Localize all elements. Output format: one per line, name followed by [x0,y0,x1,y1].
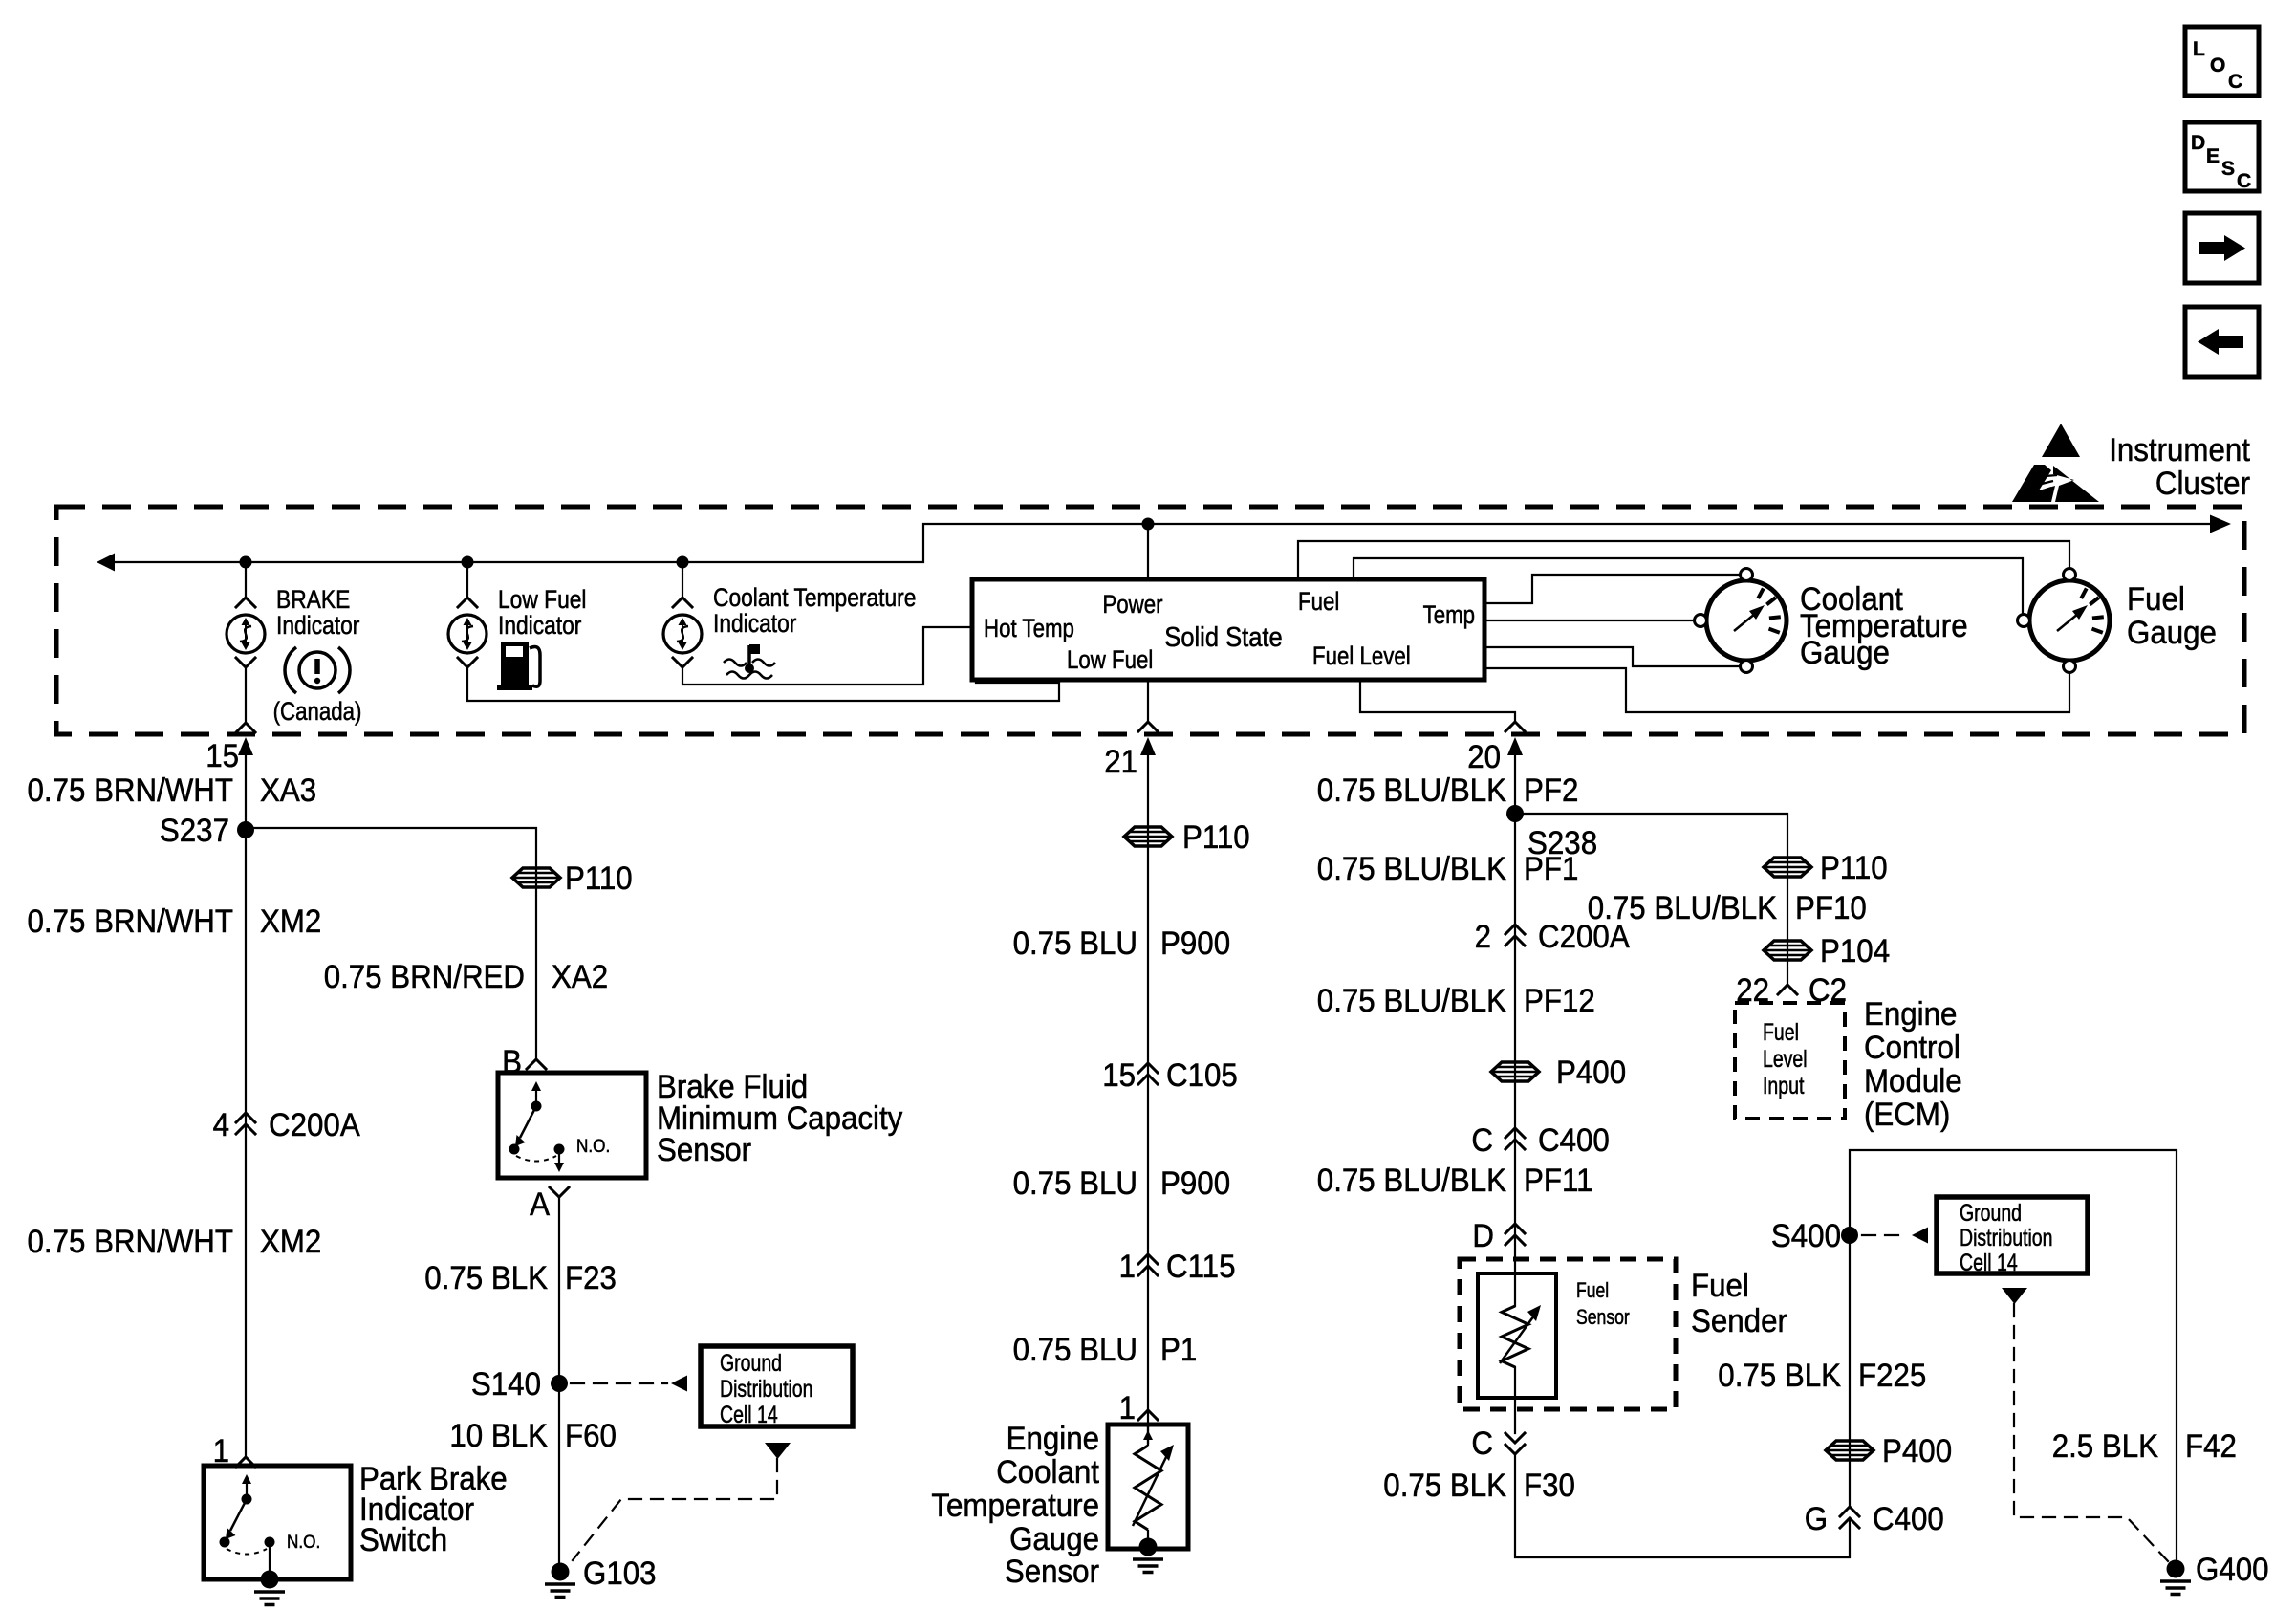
icon: coolant temperature (thermometer in liquid) [724,644,775,679]
pin 20 into cluster [1507,737,1523,755]
box: Fuel Level Input (dashed, part of ECM) [1735,1003,1845,1119]
connector P110 (brake fluid leg) [512,868,560,887]
svg-text:PF12: PF12 [1524,983,1595,1019]
svg-text:XM2: XM2 [260,903,321,940]
svg-text:Fuel Level: Fuel Level [1312,642,1411,670]
ground at ECT sensor case [1133,1538,1163,1573]
lamp: BRAKE Indicator [227,615,265,653]
ESD sensitive symbol [2042,424,2080,457]
svg-text:0.75 BLK: 0.75 BLK [1718,1358,1841,1394]
svg-text:4: 4 [213,1107,229,1143]
connector pin D [1505,1224,1525,1233]
svg-text:(Canada): (Canada) [273,697,362,726]
wire: BRAKE indicator to pin 15 [245,667,247,723]
svg-text:L: L [2193,38,2205,60]
svg-text:A: A [530,1186,550,1223]
svg-text:Coolant: Coolant [996,1454,1099,1490]
svg-text:G400: G400 [2196,1552,2269,1588]
ground at park brake switch case [254,1571,285,1605]
svg-text:Ground: Ground [1960,1200,2022,1227]
connector P104 [1764,941,1811,960]
node: bus tap to Solid State Power [1142,518,1155,531]
svg-text:15: 15 [1102,1057,1136,1094]
svg-text:C: C [1471,1122,1493,1159]
svg-text:Hot Temp: Hot Temp [984,614,1074,642]
svg-text:Sensor: Sensor [1005,1554,1099,1590]
node: bus tap to Low Fuel indicator [462,556,474,569]
svg-text:S237: S237 [160,813,229,849]
splice S400 [1841,1227,1858,1244]
wire: XA3 0.75 BRN/WHT [245,754,247,1457]
svg-text:C400: C400 [1538,1122,1610,1159]
connector P400 (fuel sender leg) [1491,1062,1539,1081]
box: Fuel Sensor [1478,1273,1556,1398]
svg-text:Gauge: Gauge [1009,1521,1099,1557]
wire: Power pin from bus [1147,524,1149,579]
icon: brake warning ((!)) (Canada) [299,652,336,688]
box: Ground Distribution Cell 14 (right) [1937,1197,2088,1273]
svg-text:0.75 BLK: 0.75 BLK [1383,1468,1506,1504]
svg-text:Solid State: Solid State [1164,622,1282,653]
svg-text:Distribution: Distribution [720,1376,813,1403]
svg-text:Instrument: Instrument [2109,432,2250,468]
svg-text:Temp: Temp [1423,600,1475,629]
svg-text:Low Fuel: Low Fuel [1067,645,1153,674]
wire: 0.75 BLK F23 / 10 BLK F60 to G103 [558,1197,560,1564]
svg-text:15: 15 [206,738,239,774]
svg-text:P900: P900 [1160,1165,1230,1202]
wire/contact to case ground [269,1542,271,1571]
svg-text:Fuel: Fuel [1298,587,1339,616]
svg-text:P900: P900 [1160,925,1230,962]
wire: fuel sensor to pin C [1514,1367,1516,1433]
svg-text:S400: S400 [1771,1218,1841,1254]
lamp: Coolant Temperature Indicator [663,615,702,653]
pin C below fuel sender [1505,1445,1525,1454]
svg-text:Indicator: Indicator [713,609,797,638]
svg-text:0.75 BLU/BLK: 0.75 BLU/BLK [1588,890,1777,926]
svg-text:C200A: C200A [269,1107,360,1143]
box: Brake Fluid Minimum Capacity Sensor [498,1073,646,1178]
svg-text:Distribution: Distribution [1960,1225,2053,1251]
svg-text:Coolant Temperature: Coolant Temperature [713,583,916,612]
wire: Solid State pin 21 [1147,680,1149,722]
right-arrow nav box [2185,213,2259,283]
svg-text:Indicator: Indicator [498,611,582,640]
svg-text:Ground: Ground [720,1350,782,1377]
svg-text:O: O [2210,54,2225,76]
svg-text:G103: G103 [583,1556,657,1592]
svg-text:Engine: Engine [1007,1421,1099,1457]
svg-text:XM2: XM2 [260,1224,321,1260]
svg-text:BRAKE: BRAKE [276,585,350,614]
wire: Coolant Temp indicator to Hot Temp pin [682,627,972,685]
left-arrow nav box [2185,307,2259,377]
svg-text:PF10: PF10 [1795,890,1867,926]
svg-text:C115: C115 [1166,1249,1236,1285]
svg-text:C400: C400 [1873,1501,1944,1537]
svg-text:0.75 BLU: 0.75 BLU [1013,1332,1137,1368]
svg-text:P1: P1 [1160,1332,1197,1368]
svg-text:Temperature: Temperature [931,1488,1099,1524]
svg-text:0.75 BRN/WHT: 0.75 BRN/WHT [28,772,234,809]
svg-text:1: 1 [1119,1390,1136,1426]
svg-text:PF1: PF1 [1524,851,1578,887]
svg-text:Cell 14: Cell 14 [720,1402,778,1428]
ground G400 [2160,1560,2191,1595]
svg-text:Engine: Engine [1864,996,1957,1033]
pin A below sensor [550,1187,569,1197]
svg-text:S140: S140 [471,1366,541,1403]
wire: 0.75 BLU/BLK PF2 [1514,754,1516,1306]
wire: Temp output (top) to Fuel Gauge left terminal [1354,558,2023,617]
svg-text:Sensor: Sensor [1576,1305,1630,1329]
svg-text:Fuel: Fuel [1763,1019,1799,1046]
wire: dashed reference S140 to Ground Distribution [571,1382,667,1384]
svg-text:Level: Level [1763,1046,1808,1073]
wire: bus to BRAKE indicator [245,562,247,598]
svg-text:P110: P110 [1182,819,1250,856]
wire: S238 branch to ECM, 0.75 BLU/BLK PF10 [1515,814,1787,985]
svg-text:Sensor: Sensor [657,1132,751,1168]
wire: bus to Coolant Temperature indicator [682,562,683,598]
svg-text:1: 1 [1119,1249,1136,1285]
svg-text:20: 20 [1467,739,1501,775]
wire: bus to Low Fuel indicator [466,562,468,598]
svg-text:(ECM): (ECM) [1864,1097,1950,1133]
svg-text:F30: F30 [1524,1468,1575,1504]
connector C105 pin 15 [1138,1063,1158,1073]
wire: output 4 to Fuel gauge bottom terminal [1484,668,2069,712]
svg-text:PF11: PF11 [1524,1163,1593,1199]
box: Solid State module U1 [972,579,1484,680]
svg-text:XA3: XA3 [260,772,316,809]
lamp: Low Fuel Indicator [448,615,487,653]
dashed reference: ground distribution to G400 [2002,1288,2027,1304]
svg-text:Switch: Switch [359,1522,447,1558]
svg-text:Module: Module [1864,1063,1962,1099]
svg-text:Control: Control [1864,1030,1960,1066]
connector C115 pin 1 [1138,1254,1158,1264]
svg-text:Gauge: Gauge [2127,615,2217,651]
node: bus tap to Coolant Temp indicator [677,556,689,569]
node: bus tap to BRAKE indicator [240,556,252,569]
connector C200A pin 4 [236,1113,255,1122]
switch: brake fluid sensor N.O. contact set [509,1081,565,1162]
connector C400 pin C [1505,1128,1525,1138]
connector C400 pin G [1840,1507,1859,1516]
instrument cluster boundary (dashed) [56,507,2244,734]
DESC nav box [2185,122,2259,191]
svg-text:2: 2 [1475,919,1491,955]
wire: dashed reference S400 to Ground Distribution [1862,1234,1908,1236]
gauge: Fuel Gauge [2018,569,2111,673]
box: Ground Distribution Cell 14 (left) [701,1346,853,1426]
wire: S237 branch to brake fluid sensor, 0.75 BRN/RED XA2 [246,828,536,1059]
svg-text:G: G [1805,1501,1828,1537]
svg-text:P110: P110 [565,860,633,897]
svg-text:N.O.: N.O. [287,1533,320,1553]
svg-text:P110: P110 [1820,850,1888,886]
svg-text:C: C [2228,71,2242,93]
pin 21 into cluster [1140,737,1156,755]
svg-text:0.75 BLU/BLK: 0.75 BLU/BLK [1317,772,1506,809]
svg-text:Indicator: Indicator [276,611,360,640]
svg-text:Low Fuel: Low Fuel [498,585,587,614]
svg-text:10 BLK: 10 BLK [449,1418,548,1454]
wire: Temp output 3 to Coolant gauge bottom terminal [1484,647,1742,666]
svg-text:0.75 BLU: 0.75 BLU [1013,1165,1137,1202]
svg-text:P400: P400 [1556,1055,1626,1091]
svg-text:0.75 BRN/WHT: 0.75 BRN/WHT [28,1224,234,1260]
svg-text:Cluster: Cluster [2155,466,2250,502]
svg-text:N.O.: N.O. [576,1137,610,1157]
wire: Temp output 1 to Coolant gauge top terminal [1484,575,1742,603]
variable resistor: fuel level sensor element [1502,1306,1528,1367]
variable resistor: ECT sensor element [1135,1446,1161,1530]
svg-text:Fuel: Fuel [2127,581,2185,618]
svg-text:Cell 14: Cell 14 [1960,1250,2018,1276]
svg-text:0.75 BLK: 0.75 BLK [424,1260,548,1296]
svg-text:2.5 BLK: 2.5 BLK [2052,1428,2159,1465]
svg-text:Fuel: Fuel [1576,1278,1609,1302]
svg-text:Sender: Sender [1691,1303,1787,1339]
svg-text:0.75 BLU/BLK: 0.75 BLU/BLK [1317,983,1506,1019]
svg-text:D: D [1472,1218,1494,1254]
svg-text:F225: F225 [1858,1358,1926,1394]
box: Fuel Sender (dashed) [1460,1259,1676,1409]
svg-text:C: C [2237,170,2251,192]
wire: main ignition feed bus [97,554,115,572]
dashed reference: ground distribution to G103 [765,1443,791,1459]
svg-text:PF2: PF2 [1524,772,1578,809]
connector P110 (ECM leg) [1764,858,1811,877]
svg-text:S: S [2221,158,2235,180]
splice S237 [237,821,254,838]
icon: fuel pump [497,642,540,690]
wire: 0.75 BLU P900/P1 column [1147,754,1149,1410]
svg-text:0.75 BLU: 0.75 BLU [1013,925,1137,962]
connector C200A pin 2 [1505,925,1525,934]
splice S238 [1506,805,1524,822]
svg-text:Power: Power [1102,590,1162,619]
pin 15 into cluster [238,737,253,755]
svg-text:Fuel: Fuel [1691,1268,1749,1304]
svg-text:F23: F23 [565,1260,617,1296]
splice S140 [551,1375,568,1392]
svg-text:21: 21 [1104,744,1137,780]
wire: Fuel Level pin to cluster pin 20 [1360,680,1515,722]
svg-text:0.75 BLU/BLK: 0.75 BLU/BLK [1317,851,1506,887]
svg-text:0.75 BRN/RED: 0.75 BRN/RED [324,959,525,995]
svg-text:0.75 BRN/WHT: 0.75 BRN/WHT [28,903,234,940]
switch: park brake N.O. contact set [220,1474,275,1555]
svg-text:F42: F42 [2185,1428,2237,1465]
wire: fuel sender ground 0.75 BLK F225 / 2.5 BLK F42 loop [1850,1150,2177,1560]
wire: fuel sender return to C400 pin G [1515,1453,1850,1557]
wire: Low Fuel indicator to Solid State Low Fuel pin [467,667,1059,701]
LOC nav box [2185,27,2259,96]
svg-text:E: E [2206,145,2220,167]
svg-text:Input: Input [1763,1073,1804,1099]
svg-text:0.75 BLU/BLK: 0.75 BLU/BLK [1317,1163,1506,1199]
connector P400 (lower) [1826,1441,1874,1460]
svg-text:Gauge: Gauge [1800,635,1890,671]
svg-text:C: C [1471,1425,1493,1462]
gauge: Coolant Temperature Gauge [1695,569,1787,673]
box: Engine Coolant Temperature Gauge Sensor [1108,1425,1188,1549]
svg-text:XA2: XA2 [552,959,608,995]
box: Park Brake Indicator Switch [204,1466,351,1579]
svg-text:D: D [2191,132,2205,154]
wire: Temp output 2 to Coolant gauge left terminal [1484,620,1696,621]
svg-text:P104: P104 [1820,933,1890,969]
svg-text:F60: F60 [565,1418,617,1454]
ground G103 [545,1563,575,1598]
svg-text:P400: P400 [1882,1433,1952,1469]
wire: Fuel output to Fuel Gauge top terminal [1298,541,2069,579]
connector P110 (center column) [1124,827,1172,846]
svg-text:C105: C105 [1166,1057,1238,1094]
